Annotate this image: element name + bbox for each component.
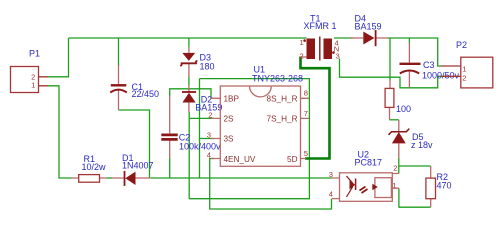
svg-text:10/2w: 10/2w — [82, 162, 107, 172]
svg-text:1: 1 — [300, 38, 304, 47]
svg-text:8S_H_R: 8S_H_R — [267, 94, 298, 103]
svg-text:8: 8 — [304, 89, 308, 98]
svg-text:180: 180 — [200, 62, 215, 72]
svg-text:3: 3 — [207, 130, 211, 139]
svg-text:100k/400v: 100k/400v — [179, 142, 221, 152]
svg-text:1: 1 — [392, 181, 396, 190]
svg-text:PC817: PC817 — [355, 158, 383, 168]
svg-text:4EN_UV: 4EN_UV — [224, 155, 256, 164]
svg-text:1: 1 — [31, 81, 35, 90]
svg-text:1000/50v: 1000/50v — [422, 71, 460, 81]
svg-text:4: 4 — [207, 151, 211, 160]
svg-text:470: 470 — [437, 181, 452, 191]
svg-text:2: 2 — [208, 110, 212, 119]
svg-text:2S: 2S — [224, 114, 235, 123]
svg-text:4: 4 — [329, 190, 333, 199]
svg-text:3: 3 — [329, 170, 333, 179]
svg-text:1N4007: 1N4007 — [122, 161, 154, 171]
svg-text:2: 2 — [393, 164, 397, 173]
svg-text:P2: P2 — [456, 40, 467, 50]
svg-text:3: 3 — [336, 52, 340, 61]
svg-text:P1: P1 — [29, 49, 40, 59]
svg-text:5D: 5D — [287, 155, 298, 164]
svg-text:7: 7 — [304, 109, 308, 118]
svg-text:BA159: BA159 — [355, 22, 382, 32]
svg-text:5: 5 — [304, 149, 308, 158]
svg-text:TNY263-268: TNY263-268 — [252, 74, 303, 84]
svg-text:z 18v: z 18v — [411, 140, 433, 150]
svg-text:100: 100 — [396, 104, 411, 114]
svg-text:C3: C3 — [423, 60, 435, 70]
svg-text:3S: 3S — [224, 135, 235, 144]
svg-text:2: 2 — [462, 73, 466, 82]
svg-text:22/450: 22/450 — [132, 89, 160, 99]
svg-text:7S_H_R: 7S_H_R — [267, 114, 298, 123]
svg-text:1: 1 — [462, 65, 466, 74]
svg-text:1BP: 1BP — [224, 94, 240, 103]
svg-text:XFMR 1: XFMR 1 — [304, 21, 337, 31]
svg-text:2: 2 — [300, 52, 304, 61]
